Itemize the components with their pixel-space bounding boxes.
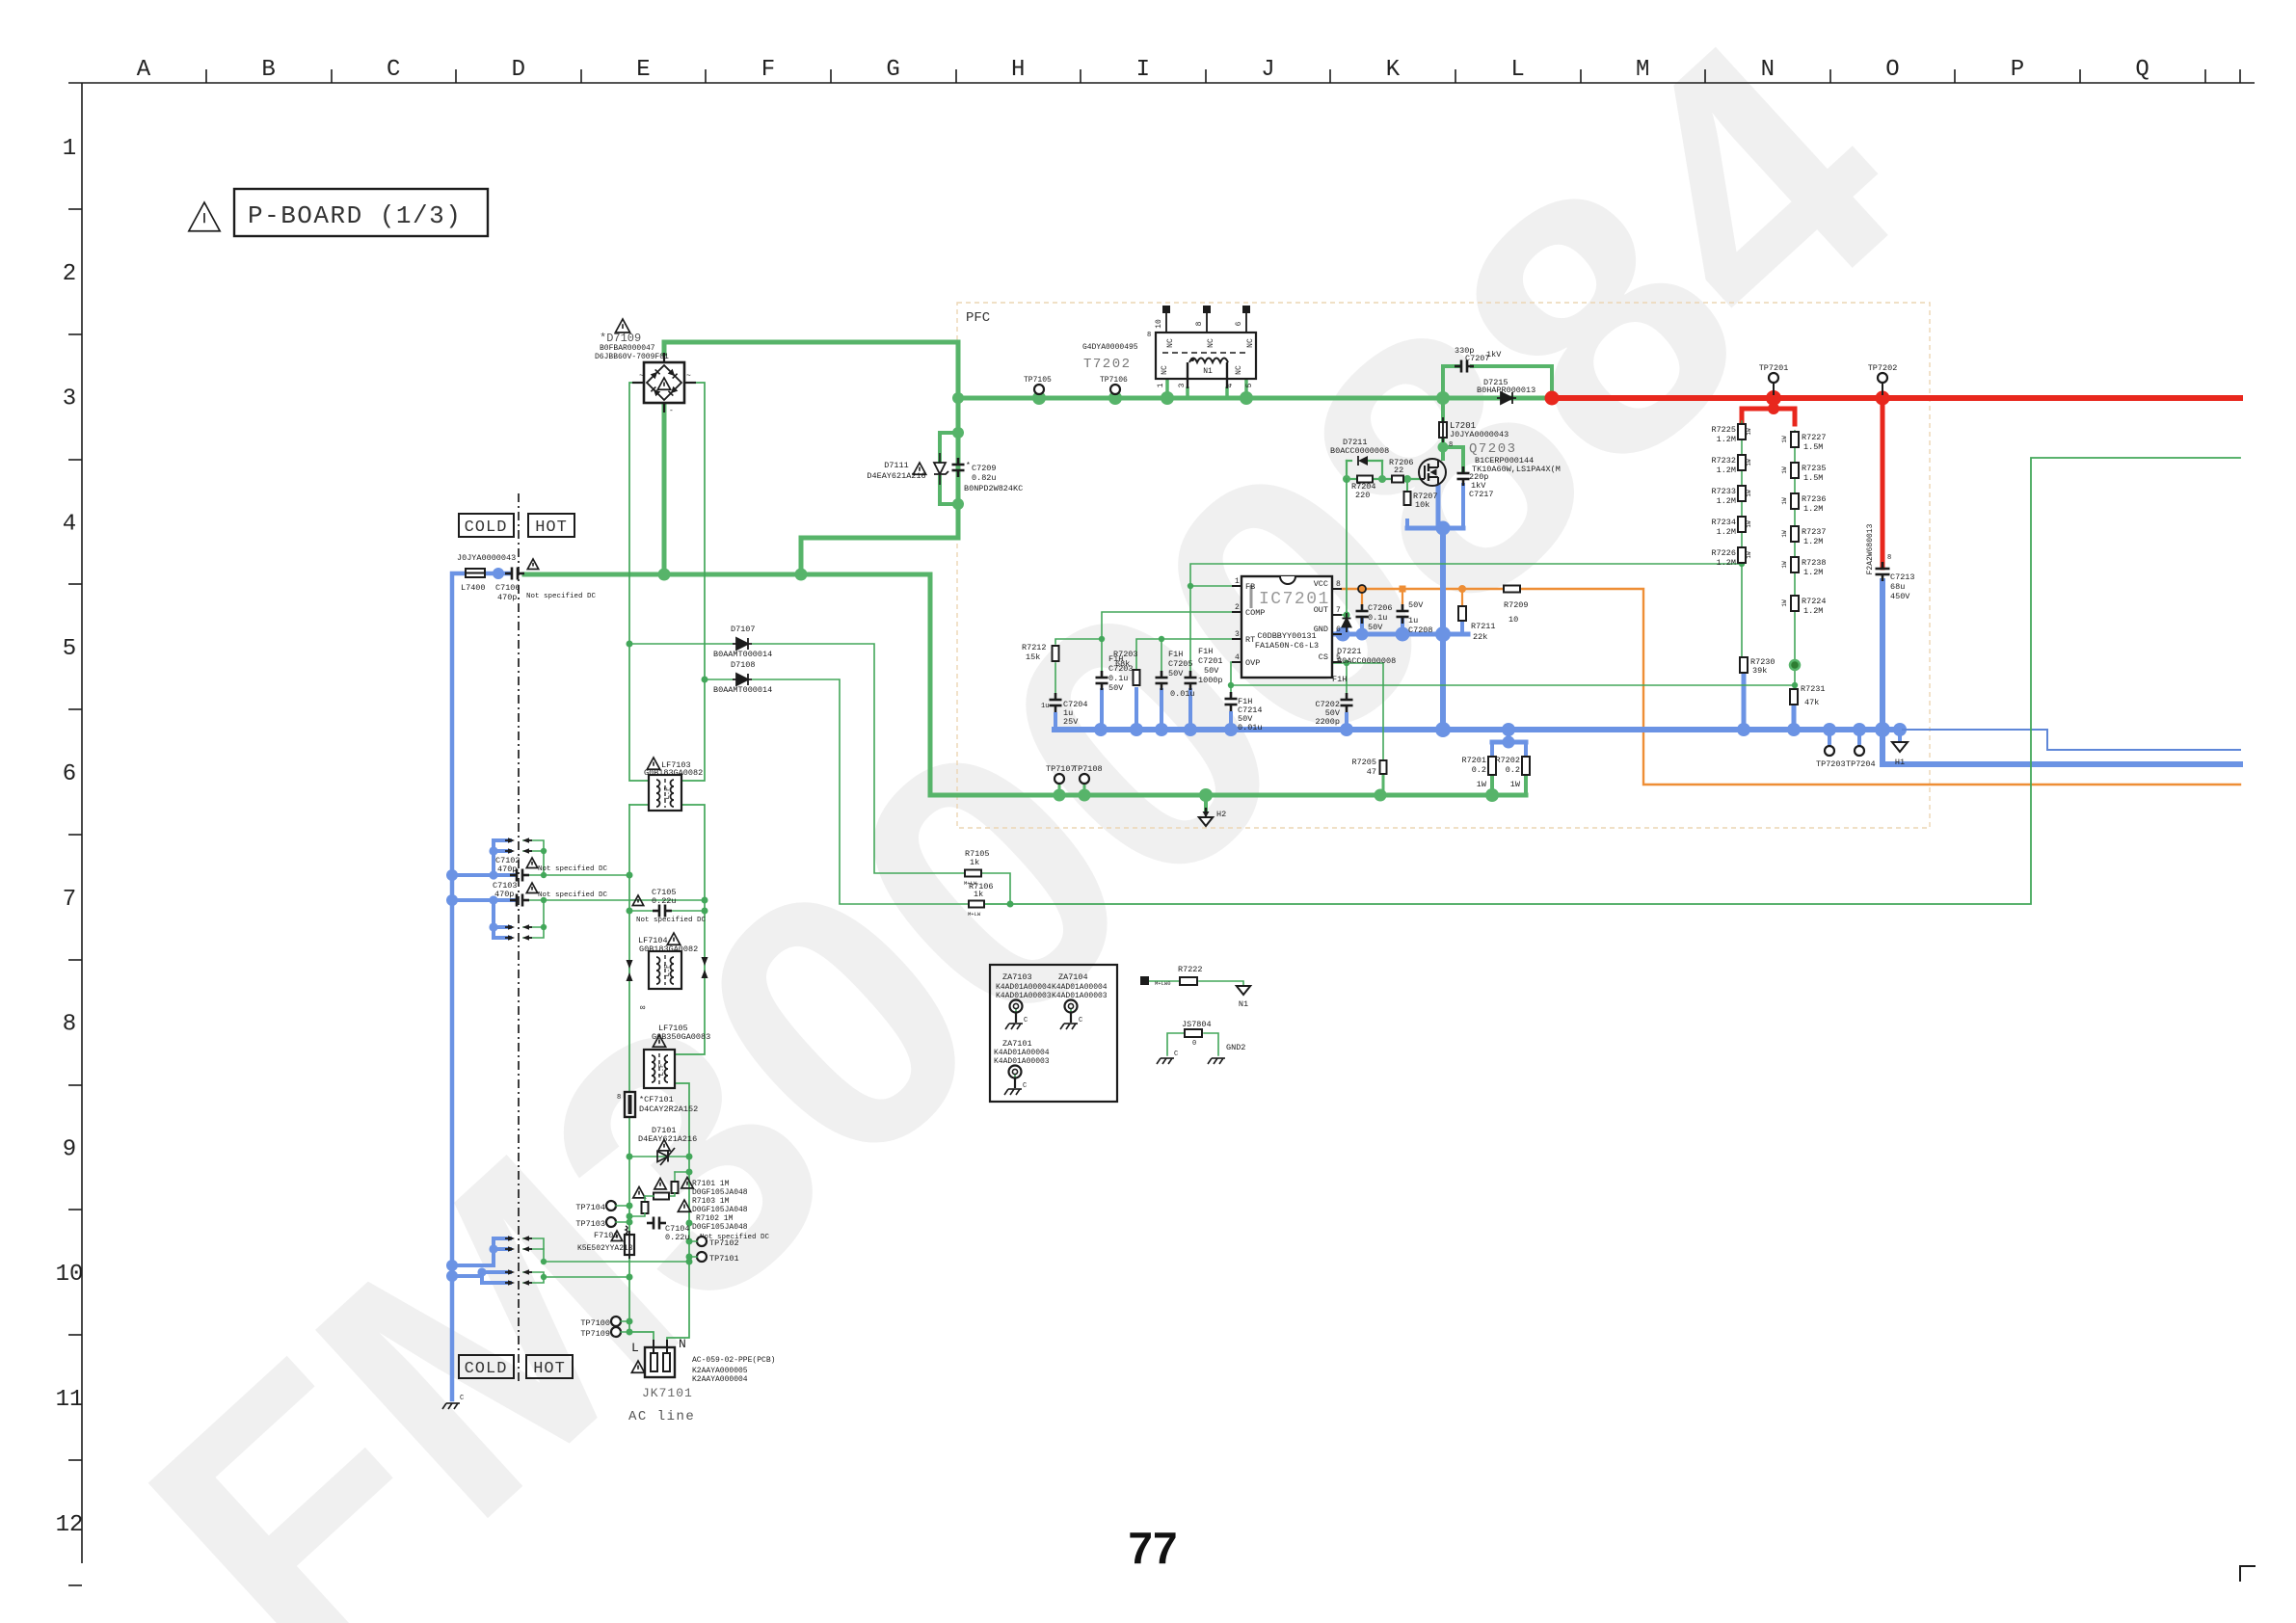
resistor R7207	[1404, 492, 1438, 510]
resistor R7225	[1711, 424, 1752, 444]
resistor R7202	[1495, 756, 1530, 789]
svg-text:E: E	[636, 57, 650, 83]
diode D7211	[1330, 438, 1389, 466]
svg-text:8: 8	[1449, 441, 1453, 449]
COLD label (bottom)	[459, 1355, 514, 1378]
svg-text:Not specified DC: Not specified DC	[538, 865, 608, 873]
svg-text:6: 6	[63, 761, 76, 787]
svg-text:1W: 1W	[1781, 436, 1788, 443]
svg-text:D7108: D7108	[731, 660, 756, 670]
capacitor C7207 330p	[1455, 346, 1502, 373]
svg-text:1: 1	[1235, 577, 1240, 586]
svg-text:~: ~	[639, 372, 644, 381]
ground N1	[1237, 986, 1250, 1009]
svg-text:1W: 1W	[1746, 459, 1752, 466]
resistor R7102	[629, 1196, 654, 1216]
test point TP7107	[1046, 764, 1076, 784]
resistor R7234	[1711, 517, 1752, 537]
resistor R7226	[1711, 547, 1752, 568]
wire: C7105 damper loop	[629, 910, 705, 912]
wire: PFC boost output (red)	[1545, 390, 2241, 568]
svg-text:3: 3	[1178, 383, 1187, 387]
svg-text:B0HAPR000013: B0HAPR000013	[1477, 386, 1535, 395]
svg-text:*: *	[966, 462, 971, 470]
svg-text:Not specified DC: Not specified DC	[636, 917, 707, 924]
svg-text:F2A2W680013: F2A2W680013	[1866, 523, 1875, 574]
svg-text:~: ~	[686, 372, 691, 381]
svg-text:R7103 1M: R7103 1M	[692, 1197, 730, 1206]
svg-text:GND2: GND2	[1226, 1043, 1245, 1052]
transformer T7202	[1147, 306, 1256, 388]
svg-text:N1: N1	[1203, 367, 1213, 376]
svg-text:C7201: C7201	[1198, 656, 1223, 666]
test point TP7204	[1846, 746, 1876, 769]
svg-text:8: 8	[1336, 580, 1341, 589]
warning triangle (title)	[189, 202, 220, 231]
resistor R7224	[1781, 596, 1827, 616]
capacitor C7203	[1096, 654, 1134, 693]
line filter LF7104	[649, 951, 681, 989]
svg-text:68u: 68u	[1890, 582, 1905, 592]
earth lug box ZA7101/ZA7103/ZA7104	[990, 965, 1117, 1102]
svg-text:68k: 68k	[1115, 659, 1130, 669]
test point TP7104	[575, 1201, 629, 1212]
svg-text:-: -	[669, 407, 674, 415]
svg-text:FB: FB	[1245, 582, 1255, 592]
svg-text:R7201: R7201	[1461, 756, 1486, 765]
svg-text:R7238: R7238	[1802, 558, 1827, 568]
svg-text:C7106: C7106	[495, 583, 521, 593]
capacitor C7201	[1185, 647, 1223, 690]
svg-text:COLD: COLD	[465, 519, 508, 537]
label Q7203	[1469, 441, 1561, 474]
svg-text:10: 10	[1155, 319, 1163, 329]
PFC region boundary	[957, 303, 1930, 828]
wire: IC GND bus (blue)	[1332, 618, 1468, 642]
test point TP7201	[1759, 363, 1789, 395]
svg-text:1W: 1W	[1781, 530, 1788, 538]
svg-text:7: 7	[1336, 606, 1341, 615]
label JK7101	[642, 1356, 775, 1400]
svg-text:F1H: F1H	[1198, 647, 1213, 656]
svg-text:1.5M: 1.5M	[1803, 473, 1823, 483]
svg-text:RT: RT	[1245, 635, 1255, 645]
svg-text:TP7108: TP7108	[1073, 764, 1103, 774]
svg-text:1W: 1W	[1746, 551, 1752, 559]
svg-text:R7231: R7231	[1801, 684, 1826, 694]
ground (cold AC)	[442, 1395, 464, 1409]
svg-text:6: 6	[1235, 321, 1243, 326]
svg-text:TP7100: TP7100	[580, 1318, 610, 1328]
svg-text:G: G	[886, 57, 899, 83]
svg-text:15k: 15k	[1026, 652, 1040, 662]
svg-text:R7233: R7233	[1711, 487, 1736, 496]
wire: C7103 coupling line	[523, 897, 705, 938]
svg-text:C7213: C7213	[1890, 572, 1915, 582]
wire: C7202 stub	[1346, 663, 1348, 700]
svg-text:5: 5	[63, 636, 76, 662]
svg-text:1.2M: 1.2M	[1803, 504, 1823, 514]
svg-text:1W: 1W	[1781, 599, 1788, 607]
svg-text:50V: 50V	[1204, 666, 1219, 676]
wire: D7107 sense line	[629, 644, 1010, 904]
COLD/HOT isolation dashed line	[518, 493, 520, 1384]
svg-text:L: L	[631, 1341, 639, 1355]
wire: C7213 negative / bulk return (blue)	[1882, 581, 2240, 764]
wire: TP7203/TP7204 stubs	[1829, 730, 1900, 745]
MOSFET Q7203	[1419, 459, 1446, 486]
inductor L7201	[1439, 417, 1508, 449]
svg-text:D4EAY621A216: D4EAY621A216	[867, 471, 925, 481]
resistor R7209	[1504, 586, 1529, 625]
svg-text:K4AD01A00003: K4AD01A00003	[1052, 992, 1108, 1000]
svg-text:1W: 1W	[1781, 561, 1788, 569]
capacitor C7209	[952, 458, 1024, 493]
svg-text:OVP: OVP	[1245, 658, 1260, 668]
svg-text:1k: 1k	[974, 890, 983, 899]
wire: JS7804 link	[1167, 1033, 1218, 1055]
HOT label (top)	[528, 514, 574, 537]
svg-text:K5E502YYA213: K5E502YYA213	[577, 1244, 633, 1253]
wire: bridge negative return rail	[524, 569, 1526, 803]
svg-text:2: 2	[63, 261, 76, 287]
wire: bridge negative stub	[662, 403, 667, 574]
svg-text:1k: 1k	[970, 858, 979, 867]
capacitor C7104	[647, 1200, 691, 1242]
svg-text:M: M	[1636, 57, 1649, 83]
svg-text:COLD: COLD	[465, 1360, 508, 1378]
capacitor C7205	[1156, 650, 1195, 699]
svg-text:K: K	[1386, 57, 1401, 83]
svg-text:K4AD01A00004: K4AD01A00004	[1052, 983, 1108, 992]
svg-text:220: 220	[1355, 491, 1370, 500]
svg-text:Not specified DC: Not specified DC	[538, 891, 608, 899]
bridge rectifier D7109	[632, 353, 696, 415]
svg-text:1.2M: 1.2M	[1803, 537, 1823, 546]
svg-text:8: 8	[617, 1094, 621, 1102]
svg-text:F1H: F1H	[1168, 650, 1183, 659]
wire: OVP net	[1228, 662, 1798, 688]
svg-text:1kV: 1kV	[1486, 350, 1502, 359]
svg-text:D7111: D7111	[884, 461, 909, 470]
svg-text:R7211: R7211	[1471, 622, 1496, 631]
COLD label (top)	[459, 514, 514, 537]
svg-text:L.F: L.F	[664, 965, 672, 977]
svg-text:B0AAMT000014: B0AAMT000014	[713, 650, 772, 659]
svg-text:1.2M: 1.2M	[1717, 558, 1736, 568]
svg-text:50V: 50V	[1368, 623, 1383, 632]
svg-text:D0GF105JA048: D0GF105JA048	[692, 1188, 748, 1197]
svg-text:R7235: R7235	[1802, 464, 1827, 473]
capacitor C7213	[1866, 523, 1915, 601]
IC7201 PFC controller	[1232, 576, 1342, 678]
svg-text:10: 10	[56, 1262, 84, 1288]
fuse CF7101	[617, 1092, 698, 1117]
capacitor C7106	[495, 559, 539, 602]
svg-text:A: A	[137, 57, 151, 83]
svg-text:R7205: R7205	[1351, 758, 1376, 767]
wire: sense divider chains	[1742, 421, 1800, 689]
svg-text:10: 10	[1508, 615, 1518, 625]
svg-text:L.F: L.F	[664, 787, 672, 800]
svg-text:1W: 1W	[1746, 490, 1752, 497]
svg-text:R7234: R7234	[1711, 518, 1736, 527]
test point TP7203	[1816, 746, 1846, 769]
svg-text:C7205: C7205	[1168, 659, 1193, 669]
svg-text:3: 3	[63, 386, 76, 412]
resistor R7201	[1461, 756, 1496, 789]
resistor R7205	[1351, 758, 1386, 777]
wire: C7102/C7103 cold stubs	[452, 840, 515, 938]
wire: D7108 sense line to secondary	[705, 458, 2240, 908]
capacitor C7206	[1356, 603, 1393, 632]
capacitor C7105	[632, 888, 706, 924]
svg-text:0.1u: 0.1u	[1368, 613, 1387, 623]
svg-text:TP7107: TP7107	[1046, 764, 1076, 774]
svg-text:11: 11	[56, 1387, 84, 1413]
ground H1	[1892, 742, 1908, 767]
wire: gate drive loop	[1343, 461, 1420, 483]
svg-text:TP7103: TP7103	[575, 1219, 605, 1229]
svg-text:L: L	[1510, 57, 1524, 83]
label T7202	[1082, 343, 1138, 372]
line filter LF7105	[644, 1050, 675, 1088]
svg-text:7: 7	[63, 887, 76, 913]
wire: thin blue branch to right	[1900, 730, 2240, 750]
label LF7105	[652, 1024, 710, 1047]
svg-text:D0GF105JA048: D0GF105JA048	[692, 1206, 748, 1214]
svg-text:ZA7103: ZA7103	[1002, 972, 1032, 982]
svg-text:12: 12	[56, 1512, 84, 1538]
svg-text:D7107: D7107	[731, 625, 756, 634]
wire: R7222 link	[1147, 981, 1243, 986]
svg-text:R7209: R7209	[1504, 600, 1529, 610]
svg-text:K4AD01A00003: K4AD01A00003	[994, 1057, 1050, 1066]
ground C (JS7804 left)	[1157, 1051, 1178, 1064]
svg-text:470p: 470p	[497, 593, 517, 602]
svg-text:C: C	[460, 1395, 464, 1402]
svg-text:39k: 39k	[1752, 666, 1767, 676]
line filter LF7103	[649, 775, 681, 811]
wire: bridge output + to PFC main rail	[664, 342, 958, 574]
label LF7103	[644, 758, 703, 778]
svg-text:1W: 1W	[1781, 466, 1788, 474]
resistor R7238	[1781, 557, 1827, 577]
svg-text:1W: 1W	[1510, 780, 1521, 789]
resistor R7212	[1022, 643, 1059, 662]
test point TP7202	[1868, 363, 1898, 395]
svg-text:R7212: R7212	[1022, 643, 1047, 652]
svg-text:1: 1	[1157, 383, 1165, 387]
wire: control-cap columns to gnd bus	[1055, 588, 1347, 730]
svg-text:1.2M: 1.2M	[1803, 606, 1823, 616]
svg-text:C: C	[1023, 1082, 1027, 1090]
svg-text:50V: 50V	[1108, 683, 1124, 693]
svg-text:Not specified DC: Not specified DC	[526, 593, 597, 600]
svg-text:D0GF105JA048: D0GF105JA048	[692, 1223, 748, 1232]
svg-text:G4DYA0000495: G4DYA0000495	[1082, 343, 1138, 352]
svg-text:1u: 1u	[1041, 703, 1049, 710]
svg-text:OUT: OUT	[1314, 605, 1328, 615]
svg-text:FA1A50N-C6-L3: FA1A50N-C6-L3	[1255, 641, 1319, 651]
resistor R7236	[1781, 493, 1827, 514]
wire: COMP net	[1055, 612, 1241, 678]
wire: main cold ground bus (blue)	[1055, 722, 1907, 737]
svg-text:C: C	[387, 57, 400, 83]
svg-text:PFC: PFC	[966, 310, 990, 326]
resistor R7211	[1458, 606, 1496, 642]
svg-text:1.2M: 1.2M	[1717, 466, 1736, 475]
svg-text:8: 8	[1887, 554, 1891, 562]
svg-text:D7221: D7221	[1337, 647, 1362, 656]
test point TP7109	[580, 1327, 629, 1339]
svg-text:1W: 1W	[1746, 520, 1752, 528]
svg-text:2200p: 2200p	[1315, 717, 1340, 727]
wire: bottom pigtail cold stubs	[452, 1238, 510, 1283]
svg-text:O: O	[1885, 57, 1899, 83]
svg-text:3: 3	[1235, 630, 1240, 639]
svg-text:C7217: C7217	[1469, 490, 1494, 499]
wire: R7207 gate pulldown	[1406, 479, 1408, 492]
svg-text:F1H: F1H	[1332, 675, 1347, 684]
svg-text:T7202: T7202	[1083, 357, 1132, 372]
svg-text:R7203: R7203	[1113, 650, 1138, 659]
svg-text:K2AAYA000005: K2AAYA000005	[692, 1367, 748, 1375]
svg-text:R7227: R7227	[1802, 433, 1827, 442]
svg-text:G0B183GA0082: G0B183GA0082	[644, 768, 703, 778]
svg-text:VCC: VCC	[1314, 579, 1328, 589]
diode D7107	[713, 625, 772, 659]
svg-text:TP7102: TP7102	[709, 1238, 739, 1248]
svg-text:0.82u: 0.82u	[972, 473, 997, 483]
resistor R7105	[964, 849, 990, 887]
svg-text:4: 4	[1235, 653, 1240, 662]
labels R7101/R7103/R7102	[692, 1180, 770, 1241]
svg-text:TP7106: TP7106	[1100, 376, 1128, 385]
svg-text:M+LW: M+LW	[968, 911, 981, 918]
wire: cold side AC input (blue)	[446, 568, 510, 1399]
svg-text:AC line: AC line	[628, 1409, 695, 1424]
ground H2	[1199, 808, 1226, 826]
resistor R7101	[654, 1172, 693, 1193]
svg-text:J: J	[1261, 57, 1274, 83]
svg-text:N1: N1	[1239, 999, 1248, 1009]
svg-text:HOT: HOT	[535, 519, 568, 537]
svg-text:I: I	[1136, 57, 1150, 83]
svg-text:TP7105: TP7105	[1024, 376, 1052, 385]
wire: hot AC line L rail	[627, 383, 654, 1347]
svg-text:C: C	[1024, 1017, 1028, 1024]
svg-text:G0B183GA0082: G0B183GA0082	[639, 945, 698, 954]
resistor R7231	[1790, 684, 1826, 707]
wire: VCC net (orange)	[1342, 585, 2240, 785]
svg-text:NC: NC	[1246, 338, 1255, 348]
svg-text:H1: H1	[1895, 758, 1905, 767]
svg-text:1W: 1W	[1477, 780, 1487, 789]
svg-text:K4AD01A00003: K4AD01A00003	[996, 992, 1052, 1000]
svg-text:5: 5	[1245, 383, 1254, 387]
svg-text:R7237: R7237	[1802, 527, 1827, 537]
svg-text:F: F	[761, 57, 775, 83]
capacitor C7217	[1457, 466, 1494, 499]
svg-text:TP7109: TP7109	[580, 1329, 610, 1339]
svg-text:0.01u: 0.01u	[1170, 689, 1195, 699]
test point TP7106	[1100, 376, 1128, 394]
resistor R7203	[1113, 650, 1140, 685]
svg-text:D6JBB60V-7009F01: D6JBB60V-7009F01	[595, 353, 669, 361]
svg-text:R7101 1M: R7101 1M	[692, 1180, 730, 1188]
svg-text:470p: 470p	[497, 865, 517, 874]
svg-text:B: B	[261, 57, 275, 83]
svg-text:NC: NC	[1166, 338, 1175, 348]
wire: H2 ground stub	[1204, 795, 1208, 810]
wire: PFC main rail (rectified)	[952, 391, 1552, 405]
svg-text:TP7104: TP7104	[575, 1203, 605, 1212]
resistor R7206	[1389, 458, 1414, 483]
svg-text:L.F: L.F	[658, 1064, 666, 1077]
wire: sense divider bottoms to bus	[1744, 673, 1794, 730]
svg-text:ZA7104: ZA7104	[1058, 972, 1088, 982]
svg-text:TP7201: TP7201	[1759, 363, 1789, 373]
wire: Q7203 source to ground bus	[1407, 485, 1463, 730]
resistor R7232	[1711, 455, 1752, 475]
svg-text:47k: 47k	[1804, 698, 1819, 707]
test point TP7103	[575, 1217, 629, 1229]
diode D7108	[713, 660, 772, 695]
resistor R7233	[1711, 486, 1752, 506]
pigtail couplers (cold/hot)	[505, 838, 532, 1286]
capacitor C7208	[1397, 600, 1433, 635]
svg-text:8: 8	[1195, 321, 1204, 326]
wire: C7207 snubber loop	[1443, 366, 1552, 398]
resistor R7235	[1781, 463, 1827, 483]
svg-text:B0AAMT000014: B0AAMT000014	[713, 685, 772, 695]
wire: T7202 pin stubs	[1167, 379, 1246, 398]
resistor R7103	[633, 1187, 675, 1200]
wire: TP7105/TP7106 stubs	[1039, 393, 1115, 398]
wire: hot AC line N rail	[667, 383, 708, 1347]
svg-text:NC: NC	[1207, 338, 1215, 348]
capacitor C7103	[493, 881, 538, 907]
svg-text:CS: CS	[1319, 652, 1328, 662]
test point TP7105	[1024, 376, 1052, 394]
test point TP7101	[689, 1252, 739, 1264]
svg-text:K4AD01A00004: K4AD01A00004	[994, 1049, 1050, 1057]
test point TP7100	[580, 1317, 629, 1328]
svg-text:1000p: 1000p	[1198, 676, 1223, 685]
resistor R7237	[1781, 526, 1827, 546]
wire: R7205 CS return	[1382, 663, 1384, 795]
svg-text:1W: 1W	[1781, 497, 1788, 505]
svg-text:H2: H2	[1216, 810, 1226, 819]
varistor D7101	[629, 1126, 697, 1165]
svg-text:4: 4	[63, 511, 76, 537]
zener D7111	[867, 453, 948, 485]
svg-text:B0NPD2W824KC: B0NPD2W824KC	[964, 484, 1023, 493]
svg-text:22: 22	[1394, 466, 1403, 475]
svg-text:8: 8	[1147, 332, 1151, 339]
svg-text:N: N	[679, 1337, 686, 1351]
svg-text:1.2M: 1.2M	[1803, 568, 1823, 577]
wire: ZA lug stems	[1015, 1009, 1071, 1085]
svg-text:0: 0	[1192, 1040, 1196, 1048]
svg-text:C0DBBYY00131: C0DBBYY00131	[1257, 631, 1316, 641]
svg-text:P: P	[2011, 57, 2024, 83]
svg-text:R7224: R7224	[1802, 597, 1827, 606]
svg-text:COMP: COMP	[1245, 608, 1265, 618]
resistor R7222	[1140, 965, 1203, 987]
diode D7215	[1477, 378, 1535, 404]
